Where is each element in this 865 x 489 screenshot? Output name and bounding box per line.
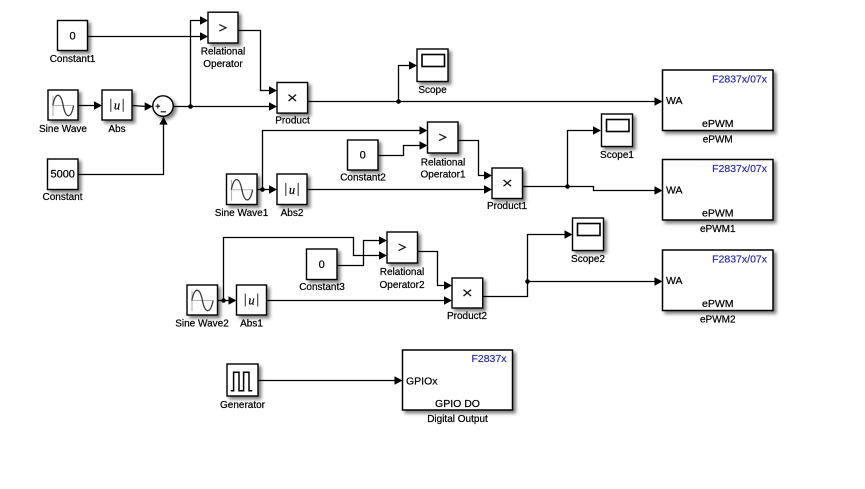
svg-text:Scope: Scope [418, 85, 447, 96]
svg-text:ePWM: ePWM [702, 298, 734, 310]
svg-text:WA: WA [666, 184, 683, 196]
svg-text:F2837x/07x: F2837x/07x [712, 254, 768, 266]
svg-text:0: 0 [69, 30, 75, 42]
svg-text:Relational: Relational [380, 267, 424, 278]
svg-text:Sine Wave: Sine Wave [39, 124, 87, 135]
svg-text:Product1: Product1 [487, 201, 527, 212]
svg-text:Constant2: Constant2 [340, 172, 386, 183]
svg-text:u: u [248, 293, 254, 307]
svg-text:Abs: Abs [108, 124, 125, 135]
svg-text:ePWM: ePWM [702, 208, 734, 220]
svg-text:Abs2: Abs2 [281, 208, 304, 219]
svg-text:0: 0 [319, 259, 325, 271]
svg-text:F2837x: F2837x [471, 353, 507, 365]
svg-text:u: u [289, 183, 295, 197]
svg-text:Sine Wave2: Sine Wave2 [175, 318, 229, 329]
svg-text:Scope2: Scope2 [571, 254, 605, 265]
svg-text:WA: WA [666, 95, 683, 107]
svg-text:Operator1: Operator1 [420, 170, 465, 181]
svg-text:Abs1: Abs1 [240, 318, 263, 329]
svg-text:WA: WA [666, 275, 683, 287]
svg-text:Constant: Constant [42, 192, 82, 203]
svg-text:GPIOx: GPIOx [406, 376, 438, 388]
svg-text:ePWM: ePWM [703, 135, 733, 146]
svg-text:Generator: Generator [220, 400, 266, 411]
svg-text:5000: 5000 [50, 169, 74, 181]
svg-text:Product: Product [275, 116, 310, 127]
svg-text:Constant1: Constant1 [50, 54, 96, 65]
svg-text:Constant3: Constant3 [299, 282, 345, 293]
svg-text:GPIO DO: GPIO DO [435, 398, 480, 410]
svg-text:Relational: Relational [421, 157, 465, 168]
svg-text:Sine Wave1: Sine Wave1 [215, 208, 269, 219]
svg-text:u: u [114, 99, 120, 113]
svg-text:Relational: Relational [201, 47, 245, 58]
svg-text:ePWM2: ePWM2 [700, 315, 736, 326]
svg-text:F2837x/07x: F2837x/07x [712, 163, 768, 175]
svg-text:0: 0 [360, 149, 366, 161]
svg-text:ePWM: ePWM [702, 118, 734, 130]
svg-text:Operator: Operator [203, 59, 243, 70]
svg-text:Scope1: Scope1 [600, 150, 634, 161]
svg-text:ePWM1: ePWM1 [700, 224, 736, 235]
svg-text:Digital Output: Digital Output [427, 414, 488, 425]
svg-text:Product2: Product2 [447, 311, 487, 322]
svg-text:F2837x/07x: F2837x/07x [712, 74, 768, 86]
svg-text:Operator2: Operator2 [379, 280, 424, 291]
